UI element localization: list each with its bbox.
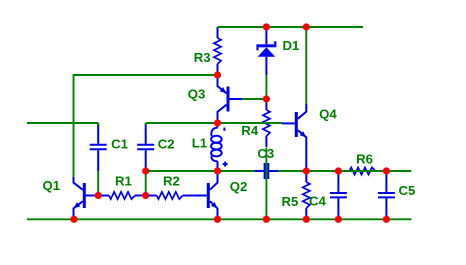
svg-text:C2: C2 (158, 137, 175, 152)
svg-text:R2: R2 (163, 174, 180, 189)
svg-text:R6: R6 (356, 151, 373, 166)
svg-text:Q4: Q4 (319, 106, 337, 121)
svg-text:R3: R3 (194, 50, 211, 65)
svg-text:C4: C4 (309, 193, 327, 208)
svg-text:Q2: Q2 (230, 179, 248, 194)
svg-text:C3: C3 (257, 146, 274, 161)
svg-text:R5: R5 (282, 194, 299, 209)
svg-text:R4: R4 (241, 123, 259, 138)
svg-text:D1: D1 (283, 38, 300, 53)
svg-text:C1: C1 (111, 137, 128, 152)
svg-text:C5: C5 (399, 183, 416, 198)
svg-text:R1: R1 (115, 174, 132, 189)
svg-text:L1: L1 (192, 136, 207, 151)
svg-text:Q1: Q1 (43, 178, 61, 193)
svg-text:Q3: Q3 (188, 87, 206, 102)
